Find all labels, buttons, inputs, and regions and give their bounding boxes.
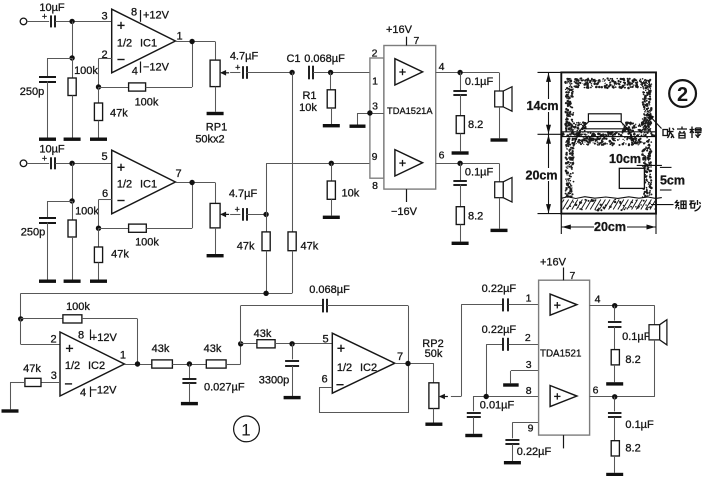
svg-text:0.068µF: 0.068µF bbox=[304, 53, 345, 65]
wire wiper riser to pin 1 row bbox=[461, 305, 463, 397]
wire summing bus bbox=[21, 293, 292, 295]
potentiometer RP2 bbox=[429, 383, 448, 409]
wire 0.01uF to ground bbox=[473, 417, 475, 434]
wire 4.7uF to node C1 bbox=[247, 72, 293, 74]
input terminal IN-R bbox=[20, 160, 27, 167]
wire 0.22uF pin9 to ground bbox=[512, 444, 514, 461]
wire 47k to ground ch1 bbox=[98, 121, 100, 138]
wire down to speaker R bbox=[499, 163, 501, 182]
wire SK node up to 0.068uF bbox=[240, 306, 242, 344]
svg-text:100k: 100k bbox=[66, 301, 90, 313]
op-amp IC2a bbox=[60, 332, 124, 396]
wire pin2 riser ch1 bbox=[98, 59, 100, 87]
wire 0.1uF to 8.2 sub B bbox=[614, 417, 616, 440]
svg-text:RP1: RP1 bbox=[206, 122, 227, 134]
svg-text:0.1µF: 0.1µF bbox=[465, 76, 494, 88]
svg-text:1: 1 bbox=[526, 293, 532, 305]
wire feedback riser ch1 bbox=[192, 42, 194, 88]
wire 0.22uF to pin 1 bbox=[509, 304, 539, 306]
capacitor 10uF ch2 bbox=[51, 157, 55, 169]
svg-text:8: 8 bbox=[372, 180, 378, 192]
svg-text:9: 9 bbox=[372, 151, 378, 163]
label 20cm bottom bg bbox=[594, 221, 627, 233]
svg-text:250p: 250p bbox=[21, 227, 45, 239]
node feedback ch2 bbox=[96, 226, 101, 231]
svg-text:7: 7 bbox=[397, 351, 403, 363]
wire node to 3300p bbox=[292, 344, 294, 360]
svg-text:1/2: 1/2 bbox=[65, 360, 80, 372]
svg-text:100k: 100k bbox=[135, 237, 159, 249]
arrow absorbing cotton bbox=[646, 112, 654, 120]
svg-text:3: 3 bbox=[101, 11, 107, 23]
svg-text:8.2: 8.2 bbox=[625, 443, 640, 455]
capacitor 250p ch1 bbox=[39, 77, 56, 82]
wire pin 3 to ground bbox=[510, 371, 512, 383]
arrow 20cm bottom left bbox=[562, 225, 571, 230]
svg-text:TDA1521A: TDA1521A bbox=[387, 106, 433, 116]
wire 43k second right bbox=[226, 364, 241, 366]
absorbing cotton bottom left upper chamber bbox=[564, 121, 586, 131]
svg-text:47k: 47k bbox=[111, 249, 129, 261]
wire pin3 to ground bbox=[357, 113, 359, 125]
wire speaker sub to pin 6 row bbox=[654, 340, 656, 397]
wire 100k to ground ch1 bbox=[72, 96, 74, 138]
extension line bottom left bbox=[560, 214, 562, 234]
wire node to 0.1uF L bbox=[460, 73, 462, 92]
wire junction to 250p ch1 bbox=[48, 58, 73, 60]
tick 5cm top bbox=[660, 166, 672, 168]
svg-text:7: 7 bbox=[414, 35, 420, 47]
wire to 43k third bbox=[241, 343, 257, 345]
svg-text:+16V: +16V bbox=[540, 257, 567, 269]
resistor 8.2 L bbox=[456, 116, 464, 134]
speaker box outline bbox=[561, 72, 656, 213]
resistor 100k bias ch1 bbox=[68, 78, 76, 96]
svg-text:3: 3 bbox=[51, 370, 57, 382]
sand fill boundary bbox=[562, 197, 662, 199]
svg-text:IC2: IC2 bbox=[88, 360, 105, 372]
wire 0.1uF to 8.2 L bbox=[460, 95, 462, 116]
wire 0.068uF down to output bbox=[408, 306, 410, 364]
wire pin 4 output sub bbox=[590, 305, 655, 307]
node ch1 input bbox=[69, 19, 74, 24]
svg-text:100k: 100k bbox=[74, 65, 98, 77]
svg-text:6: 6 bbox=[321, 374, 327, 386]
wire speaker L to ground bbox=[499, 107, 501, 138]
wire down to 250p ch2 bbox=[47, 201, 49, 219]
svg-text:8: 8 bbox=[526, 385, 532, 397]
capacitor 4.7uF ch1 bbox=[243, 66, 247, 79]
svg-text:+: + bbox=[235, 204, 240, 214]
chamber divider bbox=[561, 132, 656, 137]
amp B TDA1521A bbox=[395, 150, 423, 176]
capacitor 0.22uF pin9 bbox=[505, 440, 519, 444]
wire 47k L to summing wire bbox=[266, 251, 268, 294]
ground zobel sub A bbox=[606, 382, 623, 385]
wire junction to 100k ch2 bbox=[72, 201, 74, 220]
wire riser to 0.22uF pin1 bbox=[461, 304, 503, 306]
svg-text:2: 2 bbox=[525, 332, 531, 344]
capacitor 4.7uF ch2 bbox=[243, 208, 247, 221]
IC1a plus input bbox=[117, 22, 124, 29]
wire IC2b output bbox=[395, 363, 434, 365]
junction ch1 bias bbox=[69, 55, 74, 60]
ground RP2 bbox=[425, 423, 442, 426]
ground under RP1b bbox=[207, 254, 224, 257]
arrow 20cm top bbox=[546, 135, 551, 144]
wire pin 6 output bbox=[436, 163, 499, 165]
IC1b minus input bbox=[117, 200, 124, 202]
capacitor 10uF ch1 bbox=[51, 15, 55, 27]
svg-text:6: 6 bbox=[439, 150, 445, 162]
IC2a plus input bbox=[66, 345, 73, 352]
speaker subwoofer bbox=[649, 320, 667, 345]
svg-text:0.1µF: 0.1µF bbox=[622, 331, 651, 343]
wire 43k third to pin 5 IC2b bbox=[275, 343, 332, 345]
wire node down to 47k L bbox=[266, 214, 268, 232]
wire 0.22uF to pin 2 bbox=[509, 344, 539, 346]
svg-text:43k: 43k bbox=[204, 343, 222, 355]
IC2b plus input bbox=[337, 345, 344, 352]
node output L bbox=[457, 70, 462, 75]
node filter 1 bbox=[187, 361, 192, 366]
svg-text:8.2: 8.2 bbox=[468, 211, 483, 223]
resistor 47k summing R bbox=[288, 232, 296, 251]
wire 100k IC2a to output riser bbox=[82, 318, 138, 320]
absorbing cotton divider band bbox=[561, 131, 655, 137]
ground under RP1a bbox=[207, 112, 224, 115]
dimension line 20cm bottom bbox=[561, 226, 656, 228]
resistor 100k feedback ch1 bbox=[129, 83, 146, 91]
ground under R1 bbox=[323, 124, 340, 127]
dimension line 20cm left bbox=[548, 134, 550, 213]
wire pin 3 TDA1521 bbox=[511, 370, 539, 372]
op-amp IC2b bbox=[332, 333, 395, 393]
ground zobel R bbox=[452, 242, 469, 245]
resistor 47k summing L bbox=[262, 232, 270, 251]
capacitor 3300p bbox=[285, 361, 299, 366]
wire C1 node down to 47k R bbox=[292, 73, 294, 232]
svg-text:4.7µF: 4.7µF bbox=[230, 51, 259, 63]
label text 砂 bbox=[690, 200, 701, 211]
wire pin 6 output sub bbox=[590, 396, 655, 398]
svg-text:1: 1 bbox=[176, 31, 182, 43]
svg-text:4: 4 bbox=[132, 66, 138, 78]
IC1b plus input bbox=[117, 164, 124, 171]
wire IC2b feedback loop bbox=[320, 364, 409, 413]
wire node to 0.1uF sub A bbox=[614, 306, 616, 321]
IC1a minus input bbox=[117, 59, 124, 61]
svg-text:+16V: +16V bbox=[386, 24, 413, 36]
pin 4 tick IC1a bbox=[140, 62, 142, 73]
svg-text:1: 1 bbox=[372, 76, 378, 88]
wire node to R1 bbox=[330, 73, 332, 90]
wire pin6 IC1b bbox=[99, 199, 112, 201]
sand hatching bbox=[558, 200, 661, 210]
svg-text:0.01µF: 0.01µF bbox=[480, 399, 515, 411]
wire IC1b output bbox=[175, 182, 215, 184]
wire pin 9 to 0.22uF bbox=[512, 422, 514, 438]
wire 10k to ground bbox=[331, 199, 333, 215]
potentiometer RP1 upper bbox=[210, 60, 229, 87]
node 10k top bbox=[329, 161, 334, 166]
arrow 14cm bottom bbox=[546, 125, 551, 134]
ground 0.027uF bbox=[181, 402, 198, 405]
wire 0.068uF right bbox=[327, 305, 408, 307]
svg-text:47k: 47k bbox=[110, 108, 128, 120]
wire node down to bias junction ch1 bbox=[72, 21, 74, 58]
amp A plus TDA1521 bbox=[554, 302, 560, 308]
wire pin 3 TDA1521A bbox=[358, 113, 384, 115]
pin 7 stub TDA1521 bbox=[563, 268, 565, 281]
ground 0.01uF bbox=[465, 434, 482, 437]
wire 8.2 to ground R bbox=[460, 225, 462, 242]
svg-text:−12V: −12V bbox=[91, 385, 118, 397]
svg-text:50kx2: 50kx2 bbox=[195, 134, 224, 146]
node IC2a input bbox=[18, 316, 23, 321]
wire C 10uF to op-amp pin 5 bbox=[55, 163, 111, 165]
wire 100k fb to output riser ch1 bbox=[146, 87, 193, 89]
figure label 1 bbox=[234, 416, 260, 442]
svg-text:47k: 47k bbox=[301, 241, 319, 253]
svg-text:0.027µF: 0.027µF bbox=[204, 382, 245, 394]
wire C 10uF to op-amp pin 3 bbox=[55, 21, 111, 23]
wire input L to C 10uF bbox=[27, 21, 49, 23]
svg-text:14cm: 14cm bbox=[527, 99, 559, 113]
IC TDA1521A body bbox=[384, 46, 436, 190]
wire RP1b to ground bbox=[215, 228, 217, 254]
pin 5 stub TDA1521A bbox=[406, 189, 408, 202]
svg-text:2: 2 bbox=[101, 49, 107, 61]
svg-text:IC1: IC1 bbox=[140, 178, 157, 190]
svg-text:5: 5 bbox=[101, 151, 107, 163]
wire pin 4 output bbox=[436, 72, 499, 74]
svg-text:8: 8 bbox=[78, 329, 84, 341]
junction ch2 bias bbox=[69, 198, 74, 203]
svg-text:6: 6 bbox=[102, 188, 108, 200]
potentiometer RP1 lower bbox=[210, 203, 229, 228]
extension line mid bbox=[538, 133, 562, 135]
resistor 8.2 sub B bbox=[611, 441, 619, 456]
wire 100k fb to output riser ch2 bbox=[146, 228, 192, 230]
svg-text:+: + bbox=[235, 63, 240, 73]
absorbing cotton left band upper bbox=[565, 87, 575, 132]
capacitor 0.22uF pin1 bbox=[503, 298, 508, 311]
label text 棉 bbox=[690, 127, 702, 139]
speaker R bbox=[495, 178, 512, 203]
svg-text:−12V: −12V bbox=[143, 62, 170, 74]
ground under 100k ch2 bbox=[64, 280, 81, 283]
wire riser to 0.22uF pin2 bbox=[486, 344, 488, 396]
wire 100k to ground ch2 bbox=[72, 237, 74, 280]
sand speckle bbox=[566, 199, 651, 212]
wire output down to RP1a bbox=[215, 42, 217, 61]
wire 43k to 43k bbox=[172, 364, 206, 366]
wire 3300p to ground bbox=[292, 366, 294, 396]
capacitor C1 0.068uF bbox=[309, 66, 313, 80]
svg-text:1: 1 bbox=[241, 420, 250, 439]
wire RP1a to ground bbox=[215, 87, 217, 112]
wire 0.068uF left bbox=[241, 305, 323, 307]
label text 细 bbox=[676, 200, 687, 210]
wire node down to bias junction ch2 bbox=[72, 163, 74, 201]
capacitor 0.1uF sub A bbox=[608, 322, 622, 327]
IC TDA1521 body bbox=[539, 280, 590, 435]
svg-text:+: + bbox=[42, 153, 47, 163]
svg-text:100k: 100k bbox=[135, 97, 159, 109]
wire 0.1uF to 8.2 R bbox=[460, 185, 462, 207]
arrow 14cm top bbox=[546, 73, 551, 82]
svg-text:4: 4 bbox=[439, 61, 445, 73]
ground under 47k ch2 bbox=[90, 280, 107, 283]
node ch2 coupling bbox=[263, 212, 268, 217]
wire 250p to ground ch2 bbox=[47, 223, 49, 280]
svg-text:6: 6 bbox=[593, 385, 599, 397]
junction pin 3 bracket bbox=[367, 110, 372, 115]
wire speaker R to ground bbox=[499, 198, 501, 229]
svg-text:10k: 10k bbox=[342, 188, 360, 200]
svg-text:3300p: 3300p bbox=[259, 374, 290, 386]
capacitor 0.027uF bbox=[182, 379, 196, 383]
node pin 8 riser bbox=[484, 394, 489, 399]
resistor 43k first bbox=[152, 360, 173, 368]
wire RP2 to ground bbox=[433, 409, 435, 423]
ground under 10k pin9 bbox=[323, 216, 340, 219]
arrow 20cm bottom bbox=[546, 204, 551, 213]
svg-text:20cm: 20cm bbox=[526, 169, 558, 183]
wire feedback riser IC2a bbox=[137, 319, 139, 364]
svg-text:2: 2 bbox=[50, 334, 56, 346]
svg-text:C1: C1 bbox=[286, 53, 300, 65]
capacitor 250p ch2 bbox=[39, 218, 56, 223]
wire node to 0.027uF bbox=[189, 364, 191, 379]
amp A TDA1521 bbox=[550, 294, 577, 315]
input terminal IN-L bbox=[20, 18, 27, 25]
ground under 250p ch2 bbox=[39, 280, 56, 283]
wire 47k R to summing wire bbox=[292, 251, 294, 294]
wire pin2 IC1a bbox=[99, 58, 112, 60]
svg-text:+12V: +12V bbox=[143, 10, 170, 22]
svg-text:2: 2 bbox=[372, 48, 378, 60]
svg-text:0.1µF: 0.1µF bbox=[465, 167, 494, 179]
node IC2a output bbox=[135, 361, 140, 366]
label 20cm left bg bbox=[526, 168, 557, 181]
svg-text:8.2: 8.2 bbox=[625, 354, 640, 366]
svg-text:50k: 50k bbox=[425, 348, 443, 360]
speaker L bbox=[495, 87, 512, 112]
resistor 47k IC2a bbox=[25, 378, 41, 386]
resistor 10k pin9 bbox=[327, 181, 335, 199]
absorbing cotton lower top band bbox=[565, 136, 652, 146]
wire RP1a wiper to 4.7uF bbox=[230, 72, 240, 74]
svg-text:0.1µF: 0.1µF bbox=[625, 419, 654, 431]
ground pin 3 TDA1521A bbox=[350, 125, 366, 128]
node output R bbox=[457, 161, 462, 166]
wire IC2a output bbox=[124, 364, 151, 366]
amp A TDA1521A bbox=[395, 59, 423, 85]
woofer driver magnet bbox=[588, 114, 621, 122]
resistor 47k ch2 bbox=[94, 247, 102, 263]
amp B plus bbox=[399, 160, 405, 166]
leader line 10cm bbox=[637, 164, 662, 166]
amp B plus TDA1521 bbox=[554, 393, 560, 399]
absorbing cotton top band bbox=[564, 77, 652, 89]
absorbing cotton bottom right upper chamber bbox=[622, 122, 652, 133]
extension line bottom right bbox=[655, 214, 657, 234]
resistor 100k feedback ch2 bbox=[129, 224, 147, 232]
svg-text:7: 7 bbox=[570, 270, 576, 282]
svg-text:5: 5 bbox=[322, 334, 328, 346]
svg-text:43k: 43k bbox=[152, 343, 170, 355]
ground 47k IC2a bbox=[2, 409, 19, 412]
label 14cm bg bbox=[527, 99, 558, 112]
wire riser node to pin 9 row bbox=[266, 163, 268, 214]
op-amp IC1a bbox=[112, 9, 176, 73]
capacitor 0.068uF SK bbox=[323, 299, 327, 313]
wire node down to pin 2 IC2a bbox=[20, 319, 22, 345]
pin 5 stub TDA1521 bbox=[563, 435, 565, 448]
absorbing cotton right band upper bbox=[641, 87, 652, 130]
node ch2 input bbox=[69, 161, 74, 166]
wire 8.2 to ground sub B bbox=[614, 456, 616, 473]
resistor R1 10k bbox=[327, 90, 335, 108]
arrow 20cm bottom right bbox=[647, 225, 656, 230]
svg-text:IC2: IC2 bbox=[360, 362, 377, 374]
amp B TDA1521 bbox=[550, 386, 577, 407]
node IC2b output bbox=[405, 361, 410, 366]
svg-text:7: 7 bbox=[175, 168, 181, 180]
svg-text:20cm: 20cm bbox=[594, 220, 626, 234]
capacitor 0.1uF R bbox=[453, 181, 467, 185]
wire riser to SK node bbox=[240, 344, 242, 364]
wire node to 47k ch2 bbox=[98, 228, 100, 247]
wire to TDA1521A pin 9 bbox=[266, 163, 370, 165]
woofer cone bbox=[574, 122, 635, 145]
svg-text:47k: 47k bbox=[237, 241, 255, 253]
resistor 100k bias ch2 bbox=[68, 220, 76, 237]
wire junction to 100k ch1 bbox=[72, 58, 74, 78]
capacitor 0.1uF sub B bbox=[608, 413, 622, 417]
capacitor 0.1uF L bbox=[453, 91, 467, 95]
pin 8 tick IC2a bbox=[90, 330, 92, 341]
extension line bottom bbox=[538, 213, 562, 215]
svg-text:10cm: 10cm bbox=[609, 152, 641, 166]
absorbing cotton left band lower bbox=[565, 145, 575, 198]
svg-text:0.22µF: 0.22µF bbox=[482, 324, 517, 336]
node feedback ch1 bbox=[96, 84, 101, 89]
wire 4.7uF ch2 to node bbox=[247, 214, 267, 216]
wire down to speaker L bbox=[499, 73, 501, 92]
node Sallen-Key B bbox=[289, 341, 294, 346]
svg-text:3: 3 bbox=[372, 101, 378, 113]
extension line top bbox=[538, 71, 562, 73]
svg-text:10k: 10k bbox=[299, 102, 317, 114]
resistor 100k feedback IC2a bbox=[63, 315, 82, 323]
svg-text:+: + bbox=[42, 12, 47, 22]
svg-text:2: 2 bbox=[677, 84, 688, 106]
svg-text:100k: 100k bbox=[75, 206, 99, 218]
ground speaker L bbox=[491, 138, 508, 141]
wire IC1a output bbox=[175, 41, 215, 43]
svg-text:8: 8 bbox=[131, 7, 137, 19]
svg-text:1/2: 1/2 bbox=[117, 37, 132, 49]
pin 8 tick IC1a bbox=[140, 10, 142, 22]
wire output down to RP2 bbox=[433, 364, 435, 383]
op-amp IC1b bbox=[112, 150, 176, 214]
svg-text:1/2: 1/2 bbox=[117, 178, 132, 190]
wire 47k IC2a left bbox=[10, 382, 25, 384]
pin 4 tick IC2a bbox=[90, 387, 92, 398]
